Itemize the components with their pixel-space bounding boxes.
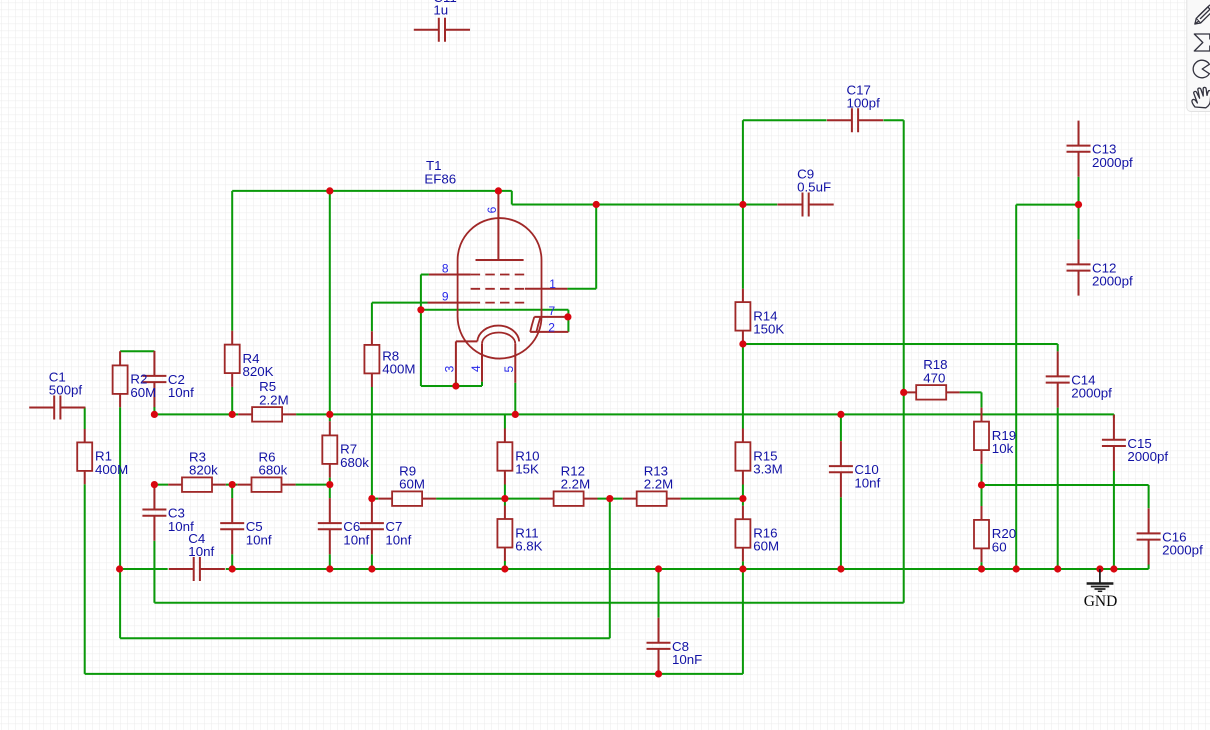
svg-text:10k: 10k [992, 441, 1014, 456]
svg-text:9: 9 [442, 290, 449, 304]
svg-text:10nF: 10nF [672, 652, 702, 667]
svg-text:EF86: EF86 [424, 172, 456, 187]
svg-text:10nf: 10nf [168, 385, 194, 400]
svg-text:2000pf: 2000pf [1127, 449, 1168, 464]
svg-text:6: 6 [485, 206, 499, 213]
svg-text:60M: 60M [130, 385, 156, 400]
svg-text:150K: 150K [753, 322, 784, 337]
svg-text:2000pf: 2000pf [1092, 274, 1133, 289]
svg-text:470: 470 [923, 370, 945, 385]
svg-text:2.2M: 2.2M [561, 477, 591, 492]
svg-text:10nf: 10nf [246, 532, 272, 547]
svg-text:2000pf: 2000pf [1162, 543, 1203, 558]
svg-text:15K: 15K [515, 462, 539, 477]
svg-text:1: 1 [549, 277, 556, 291]
svg-text:10nf: 10nf [343, 532, 369, 547]
svg-text:3.3M: 3.3M [753, 462, 783, 477]
svg-text:500pf: 500pf [49, 383, 83, 398]
svg-text:8: 8 [442, 261, 449, 275]
svg-text:2: 2 [548, 321, 555, 335]
svg-text:2.2M: 2.2M [644, 477, 674, 492]
svg-text:60M: 60M [399, 477, 425, 492]
svg-text:820K: 820K [243, 364, 274, 379]
svg-text:3: 3 [443, 365, 457, 372]
svg-text:400M: 400M [382, 362, 415, 377]
svg-text:680k: 680k [340, 455, 369, 470]
svg-text:10nf: 10nf [385, 532, 411, 547]
svg-text:2.2M: 2.2M [259, 392, 289, 407]
svg-text:2000pf: 2000pf [1071, 386, 1112, 401]
svg-text:820k: 820k [189, 463, 218, 478]
svg-text:400M: 400M [95, 462, 128, 477]
svg-text:60: 60 [992, 539, 1007, 554]
svg-text:10nf: 10nf [854, 475, 880, 490]
svg-text:1u: 1u [433, 3, 448, 18]
svg-text:GND: GND [1084, 593, 1118, 610]
svg-text:680k: 680k [259, 463, 288, 478]
svg-text:0.5uF: 0.5uF [797, 180, 831, 195]
svg-text:4: 4 [469, 365, 483, 372]
svg-text:2000pf: 2000pf [1092, 155, 1133, 170]
svg-text:7: 7 [549, 304, 556, 318]
svg-text:100pf: 100pf [847, 96, 881, 111]
svg-text:5: 5 [502, 366, 516, 373]
svg-text:6.8K: 6.8K [515, 539, 542, 554]
svg-text:10nf: 10nf [188, 544, 214, 559]
svg-text:60M: 60M [753, 539, 779, 554]
